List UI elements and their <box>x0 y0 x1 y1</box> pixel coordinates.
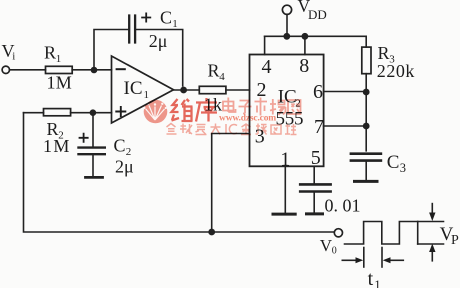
svg-text:2μ: 2μ <box>149 31 168 51</box>
svg-text:1: 1 <box>280 148 290 170</box>
svg-text:1: 1 <box>374 277 381 288</box>
capacitor C2 <box>79 148 105 155</box>
svg-text:1: 1 <box>172 18 178 30</box>
wire VDD bus <box>265 35 367 37</box>
arrowhead t1 left-pointing <box>383 257 391 263</box>
svg-text:0: 0 <box>332 246 337 257</box>
node pin8 bus junction <box>302 33 309 40</box>
svg-text:C: C <box>114 136 126 156</box>
resistor R2 <box>44 109 71 116</box>
waveform fall edge <box>417 222 419 245</box>
node junction plus input <box>90 109 97 116</box>
svg-text:5: 5 <box>311 147 321 169</box>
ic IC2 555 box <box>250 55 324 167</box>
svg-text:4: 4 <box>262 56 272 78</box>
op-amp minus sign <box>116 68 126 70</box>
svg-text:t: t <box>368 268 374 288</box>
svg-text:C: C <box>387 152 400 173</box>
dimension t1 tick right <box>381 248 383 268</box>
dimension VP down arrow <box>431 204 433 214</box>
wire pin3 output <box>212 134 250 233</box>
svg-text:1: 1 <box>56 53 62 65</box>
ground pin1 bar <box>273 213 295 216</box>
wire pin6 <box>324 91 367 93</box>
wire bus to R3 <box>365 36 367 47</box>
capacitor C1 plus sign <box>141 13 151 23</box>
op-amp U1 triangle <box>112 56 174 123</box>
svg-text:8: 8 <box>299 55 309 77</box>
wire Vi to R1 <box>10 69 46 71</box>
svg-text:DD: DD <box>308 7 327 22</box>
wire C3 to ground <box>365 162 367 180</box>
svg-text:6: 6 <box>313 81 323 103</box>
watermark char chang <box>270 99 286 115</box>
resistor R3 <box>362 47 371 74</box>
wire R3 down to C3 <box>365 74 367 151</box>
dimension t1 tick left <box>363 248 365 268</box>
dimension t1 arrow right <box>390 259 404 261</box>
watermark char wang <box>288 100 301 114</box>
svg-text:www.dzsc.com: www.dzsc.com <box>219 114 277 124</box>
svg-text:P: P <box>451 233 459 248</box>
arrowhead t1 right-pointing <box>356 257 364 263</box>
svg-text:0. 01: 0. 01 <box>325 196 361 216</box>
svg-text:R: R <box>208 61 220 81</box>
svg-text:7: 7 <box>314 116 324 138</box>
watermark char zi <box>239 101 252 114</box>
wire VDD stem <box>286 15 288 37</box>
wire pin5 to C5 <box>313 166 315 183</box>
watermark char wei <box>172 99 193 121</box>
resistor R4 <box>199 86 226 93</box>
svg-text:220k: 220k <box>377 61 415 81</box>
resistor R1 <box>46 66 73 73</box>
svg-text:R: R <box>44 43 56 63</box>
wire R1 to op-amp minus input <box>72 69 111 71</box>
svg-text:3: 3 <box>400 161 406 175</box>
ground C3 bar <box>355 180 378 183</box>
node pin7 junction <box>363 123 370 130</box>
svg-text:2: 2 <box>257 79 267 101</box>
svg-text:1M: 1M <box>47 73 72 93</box>
dimension t1 arrow left <box>342 259 356 261</box>
svg-text:IC: IC <box>124 78 143 99</box>
svg-text:i: i <box>12 51 15 63</box>
arrowhead VP down <box>429 213 435 222</box>
node Vi input terminal <box>2 66 9 73</box>
svg-text:2μ: 2μ <box>115 157 134 177</box>
arrowhead VP up <box>429 244 435 252</box>
capacitor C5 0.01 <box>300 184 330 191</box>
op-amp plus sign <box>115 106 126 117</box>
waveform low reference line <box>418 243 444 245</box>
node VDD bus junction <box>283 33 290 40</box>
wire pin8 <box>304 36 306 54</box>
node junction minus input <box>91 67 98 74</box>
wire op-amp output to R4 <box>174 89 200 91</box>
svg-text:C: C <box>160 8 172 28</box>
watermark char ku <box>196 98 217 122</box>
wire pin4 <box>264 36 266 54</box>
watermark logo <box>143 100 167 124</box>
node output junction <box>180 87 187 94</box>
ground C5 bar <box>307 212 323 215</box>
ground C2 bar <box>86 176 103 179</box>
wire junction down to C2 <box>92 113 94 146</box>
wire R4 to pin2 of IC2 <box>226 89 250 91</box>
waveform square wave <box>345 222 444 245</box>
node V0 output terminal <box>334 229 342 237</box>
node bottom junction <box>208 229 215 236</box>
svg-text:1M: 1M <box>43 136 69 156</box>
dimension VP up arrow <box>431 252 433 261</box>
node VDD terminal <box>282 5 291 14</box>
watermark char dian <box>223 98 236 113</box>
svg-text:1: 1 <box>144 89 150 101</box>
wire C2 to ground <box>92 156 94 176</box>
watermark text global row <box>167 124 297 135</box>
watermark char shi <box>255 98 268 116</box>
svg-text:4: 4 <box>219 71 225 83</box>
svg-text:R: R <box>378 43 390 63</box>
wire pin1 to ground <box>284 166 286 212</box>
wire C1 right to op-amp output node <box>136 30 183 87</box>
wire junction up to C1 left <box>94 30 128 70</box>
node pin6 junction <box>363 89 370 96</box>
wire R2 to op-amp plus input <box>71 112 112 114</box>
wire left to R2 <box>24 112 44 114</box>
wire bottom feedback <box>24 113 335 232</box>
capacitor C1 <box>129 16 135 43</box>
capacitor C2 plus sign <box>79 133 89 143</box>
wire C5 to ground <box>313 193 315 212</box>
wire pin7 <box>324 125 367 127</box>
capacitor C3 <box>351 154 381 161</box>
